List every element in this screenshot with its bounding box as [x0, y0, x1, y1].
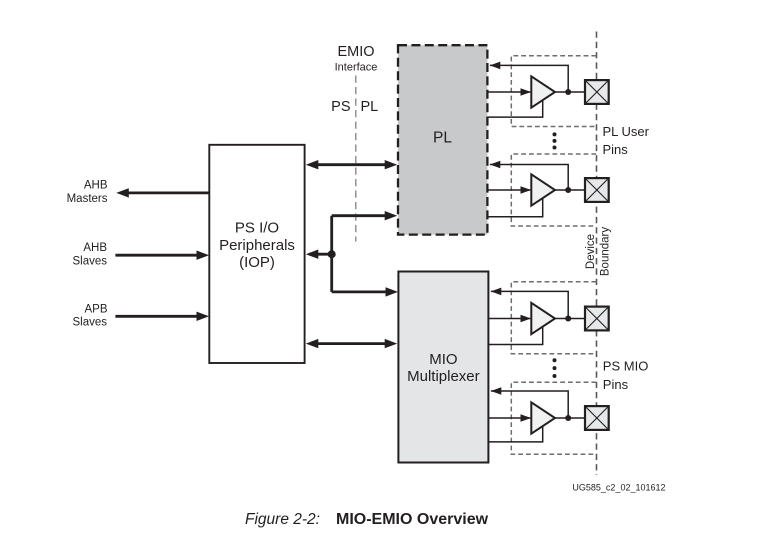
svg-text:PL: PL	[433, 130, 452, 147]
wire IO cell 4 feedback (pad to MIO)	[491, 391, 568, 418]
wire IO cell 3 feedback (pad to MIO)	[491, 291, 568, 318]
wire IO cell 1 output (buffer to pad)	[555, 91, 585, 93]
node IO cell 1 output junction	[565, 89, 571, 95]
node IO cell 4 output junction	[565, 415, 571, 421]
wire IO cell 2 output (buffer to pad)	[555, 189, 585, 191]
IO cell 4 dashed box	[511, 382, 596, 454]
node EMIO branch junction	[328, 250, 336, 258]
wire EMIO branch trunk (IOP to PL and MIO)	[306, 211, 398, 297]
svg-text:PS MIO: PS MIO	[603, 359, 649, 374]
svg-text:(IOP): (IOP)	[239, 254, 275, 271]
wire IO cell 1 feedback (pad to PL)	[490, 65, 568, 92]
svg-text:Interface: Interface	[335, 62, 378, 74]
EMIO interface dashed separator line	[355, 76, 357, 242]
block PS I/O Peripherals (IOP)	[209, 145, 304, 363]
svg-text:PL User: PL User	[603, 124, 650, 139]
svg-text:Pins: Pins	[603, 377, 629, 392]
wire IO cell 3 enable (MIO to buffer)	[488, 326, 542, 345]
wire IOP-MIO bidirectional bus (bottom)	[306, 339, 397, 348]
wire IO cell 3 output (buffer to pad)	[555, 318, 585, 320]
svg-text:Slaves: Slaves	[72, 256, 107, 268]
block PL (programmable logic)	[398, 45, 487, 234]
wire APB Slaves arrow (left to IOP)	[115, 312, 209, 321]
IO pad 1 (square with X)	[585, 80, 609, 104]
block MIO Multiplexer	[398, 272, 488, 463]
wire IO cell 1 input (PL to buffer)	[487, 91, 530, 93]
IO pad 4 (square with X)	[585, 406, 609, 430]
ellipsis dots between PL IO cells	[553, 132, 557, 149]
svg-text:Figure 2-2:: Figure 2-2:	[245, 511, 320, 528]
node IO cell 2 output junction	[565, 187, 571, 193]
svg-text:Device: Device	[585, 234, 597, 269]
APB Slaves label	[72, 303, 107, 328]
AHB Slaves label	[72, 242, 107, 268]
svg-text:AHB: AHB	[83, 242, 107, 254]
wire IO cell 2 input (PL to buffer)	[487, 189, 530, 191]
buffer U3 (output driver triangle)	[531, 303, 555, 334]
svg-text:Pins: Pins	[603, 142, 629, 157]
wire IO cell 2 feedback (pad to PL)	[490, 165, 568, 191]
wire AHB Slaves arrow (left to IOP)	[115, 251, 209, 260]
svg-text:PS I/O: PS I/O	[235, 220, 279, 237]
PL User Pins label	[603, 124, 650, 157]
PS MIO Pins label	[603, 359, 649, 392]
wire AHB Masters arrow (IOP to left)	[116, 188, 209, 197]
wire IOP-PL bidirectional bus (top)	[306, 160, 397, 169]
svg-text:PS: PS	[331, 99, 350, 115]
wire IO cell 2 enable (PL to buffer)	[487, 198, 542, 217]
buffer U2 (output driver triangle)	[531, 174, 555, 205]
svg-text:EMIO: EMIO	[337, 44, 374, 60]
AHB Masters label	[67, 180, 108, 205]
IO pad 3 (square with X)	[585, 307, 609, 331]
svg-text:Slaves: Slaves	[72, 317, 107, 329]
svg-text:Multiplexer: Multiplexer	[407, 368, 480, 385]
IO cell 3 dashed box	[511, 282, 596, 354]
svg-text:AHB: AHB	[84, 180, 108, 192]
Device Boundary dashed line	[596, 32, 598, 476]
buffer U4 (output driver triangle)	[531, 402, 555, 433]
wire IO cell 4 output (buffer to pad)	[555, 417, 585, 419]
svg-text:MIO-EMIO Overview: MIO-EMIO Overview	[336, 511, 489, 528]
svg-text:APB: APB	[84, 303, 107, 315]
svg-text:Masters: Masters	[67, 193, 108, 205]
wire IO cell 3 input (MIO to buffer)	[488, 318, 530, 320]
svg-text:PL: PL	[361, 99, 379, 115]
node IO cell 3 output junction	[565, 316, 571, 322]
svg-text:UG585_c2_02_101612: UG585_c2_02_101612	[572, 483, 665, 493]
ellipsis dots between MIO IO cells	[553, 358, 557, 378]
wire IO cell 4 input (MIO to buffer)	[488, 417, 530, 419]
wire IO cell 1 enable (PL to buffer)	[487, 100, 542, 118]
IO pad 2 (square with X)	[585, 178, 609, 202]
figure caption	[245, 511, 489, 528]
svg-text:MIO: MIO	[429, 351, 457, 368]
IO cell 2 dashed box	[511, 154, 596, 226]
Device Boundary label (rotated)	[585, 227, 611, 276]
IO cell 1 dashed box	[511, 56, 596, 127]
wire IO cell 4 enable (MIO to buffer)	[488, 426, 542, 442]
svg-text:Boundary: Boundary	[600, 227, 612, 276]
buffer U1 (output driver triangle)	[531, 76, 555, 107]
svg-text:Peripherals: Peripherals	[219, 237, 295, 254]
